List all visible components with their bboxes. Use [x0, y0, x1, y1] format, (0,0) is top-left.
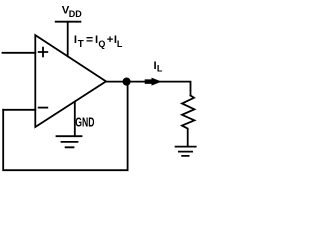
svg-text:GND: GND	[75, 116, 94, 130]
